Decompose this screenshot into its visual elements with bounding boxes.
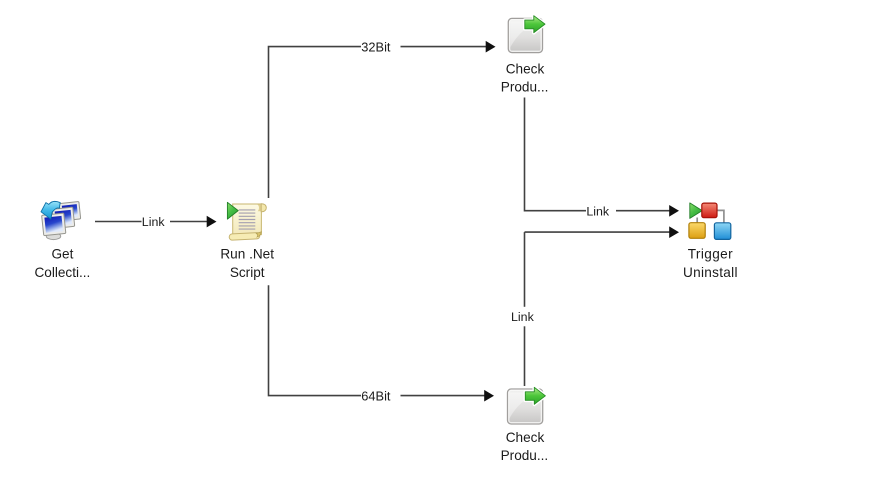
svg-text:Produ...: Produ... — [501, 448, 549, 463]
svg-text:Collecti...: Collecti... — [34, 265, 90, 280]
node icon: Check Produ (top) gray button with green arrow — [508, 16, 545, 53]
node icon: Check Produ (bottom) gray button with green arrow — [508, 387, 546, 424]
svg-text:Trigger: Trigger — [688, 247, 733, 262]
label: Trigger Uninstall — [683, 247, 738, 280]
svg-text:32Bit: 32Bit — [361, 39, 391, 54]
wire: Link from Check Produ (bottom) up to Trigger Uninstall — [525, 226, 680, 386]
svg-text:Script: Script — [230, 265, 265, 280]
svg-text:Link: Link — [586, 204, 610, 218]
svg-text:64Bit: 64Bit — [361, 388, 391, 403]
label: Check Produ... (top) — [501, 61, 549, 94]
wire: Link from Check Produ (top) to Trigger Uninstall — [525, 98, 680, 217]
label: Check Produ... (bottom) — [501, 430, 549, 463]
node icon: Trigger Uninstall (flowchart squares with green play triangle) — [689, 203, 731, 240]
wire: 32Bit branch from Run .Net Script up to Check Produ (top) — [269, 41, 496, 198]
svg-text:Produ...: Produ... — [501, 80, 549, 95]
svg-text:Link: Link — [142, 215, 166, 229]
svg-text:Run .Net: Run .Net — [220, 247, 274, 262]
svg-text:Check: Check — [506, 430, 545, 445]
wire: 64Bit branch from Run .Net Script down to Check Produ (bottom) — [269, 285, 495, 401]
svg-text:Uninstall: Uninstall — [683, 265, 738, 280]
wire: Link from Get Collection to Run .Net Script — [95, 216, 217, 228]
svg-text:Get: Get — [51, 247, 73, 262]
node icon: Get Collection (three computers with cyan refresh arrow) — [41, 201, 81, 239]
label: Get Collecti... — [34, 247, 90, 280]
svg-text:Link: Link — [511, 310, 535, 324]
label: Run .Net Script — [220, 247, 274, 280]
node icon: Run .Net Script (scroll with green play triangle) — [227, 202, 266, 240]
svg-text:Check: Check — [506, 61, 545, 76]
